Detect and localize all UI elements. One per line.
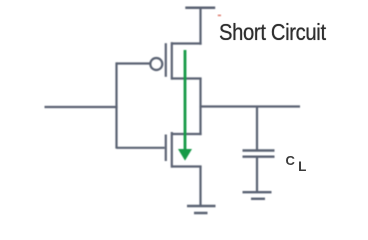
wire input vertical to both gates xyxy=(115,62,117,148)
transistor NMOS channel bar xyxy=(171,132,173,168)
capacitor CL top plate xyxy=(243,149,275,151)
wire capacitor top vertical xyxy=(256,107,258,150)
wire output horizontal xyxy=(200,105,301,107)
label Short Circuit xyxy=(219,19,326,46)
wire PMOS drain vertical to output node xyxy=(199,79,201,108)
ground (capacitor) bar short xyxy=(251,198,265,200)
wire PMOS source lead xyxy=(171,42,202,44)
capacitor CL bottom plate xyxy=(243,155,275,157)
wire NMOS gate lead xyxy=(117,147,165,149)
wire NMOS drain lead xyxy=(171,133,202,135)
ground (capacitor) bar long xyxy=(243,191,272,193)
wire PMOS gate lead xyxy=(117,62,150,64)
transistor PMOS channel bar xyxy=(171,42,173,79)
label C_L xyxy=(286,152,304,170)
ground (NMOS source) bar short xyxy=(194,212,208,215)
op-amp style inverter bubble on PMOS gate xyxy=(150,58,162,70)
transistor PMOS gate bar xyxy=(165,43,167,77)
wire NMOS drain vertical from output node xyxy=(199,107,201,136)
short-circuit current arrow (green) xyxy=(178,50,192,161)
wire VDD vertical xyxy=(199,8,201,45)
stray red tick artifact xyxy=(218,15,221,17)
wire input horizontal xyxy=(45,106,118,108)
wire capacitor bottom vertical xyxy=(256,158,258,192)
transistor NMOS gate bar xyxy=(165,135,167,162)
VDD rail bar xyxy=(185,6,215,9)
wire NMOS source vertical to ground xyxy=(199,167,201,207)
ground (NMOS source) bar long xyxy=(187,205,216,208)
wire PMOS drain lead xyxy=(171,77,202,79)
wire NMOS source lead xyxy=(171,165,202,167)
